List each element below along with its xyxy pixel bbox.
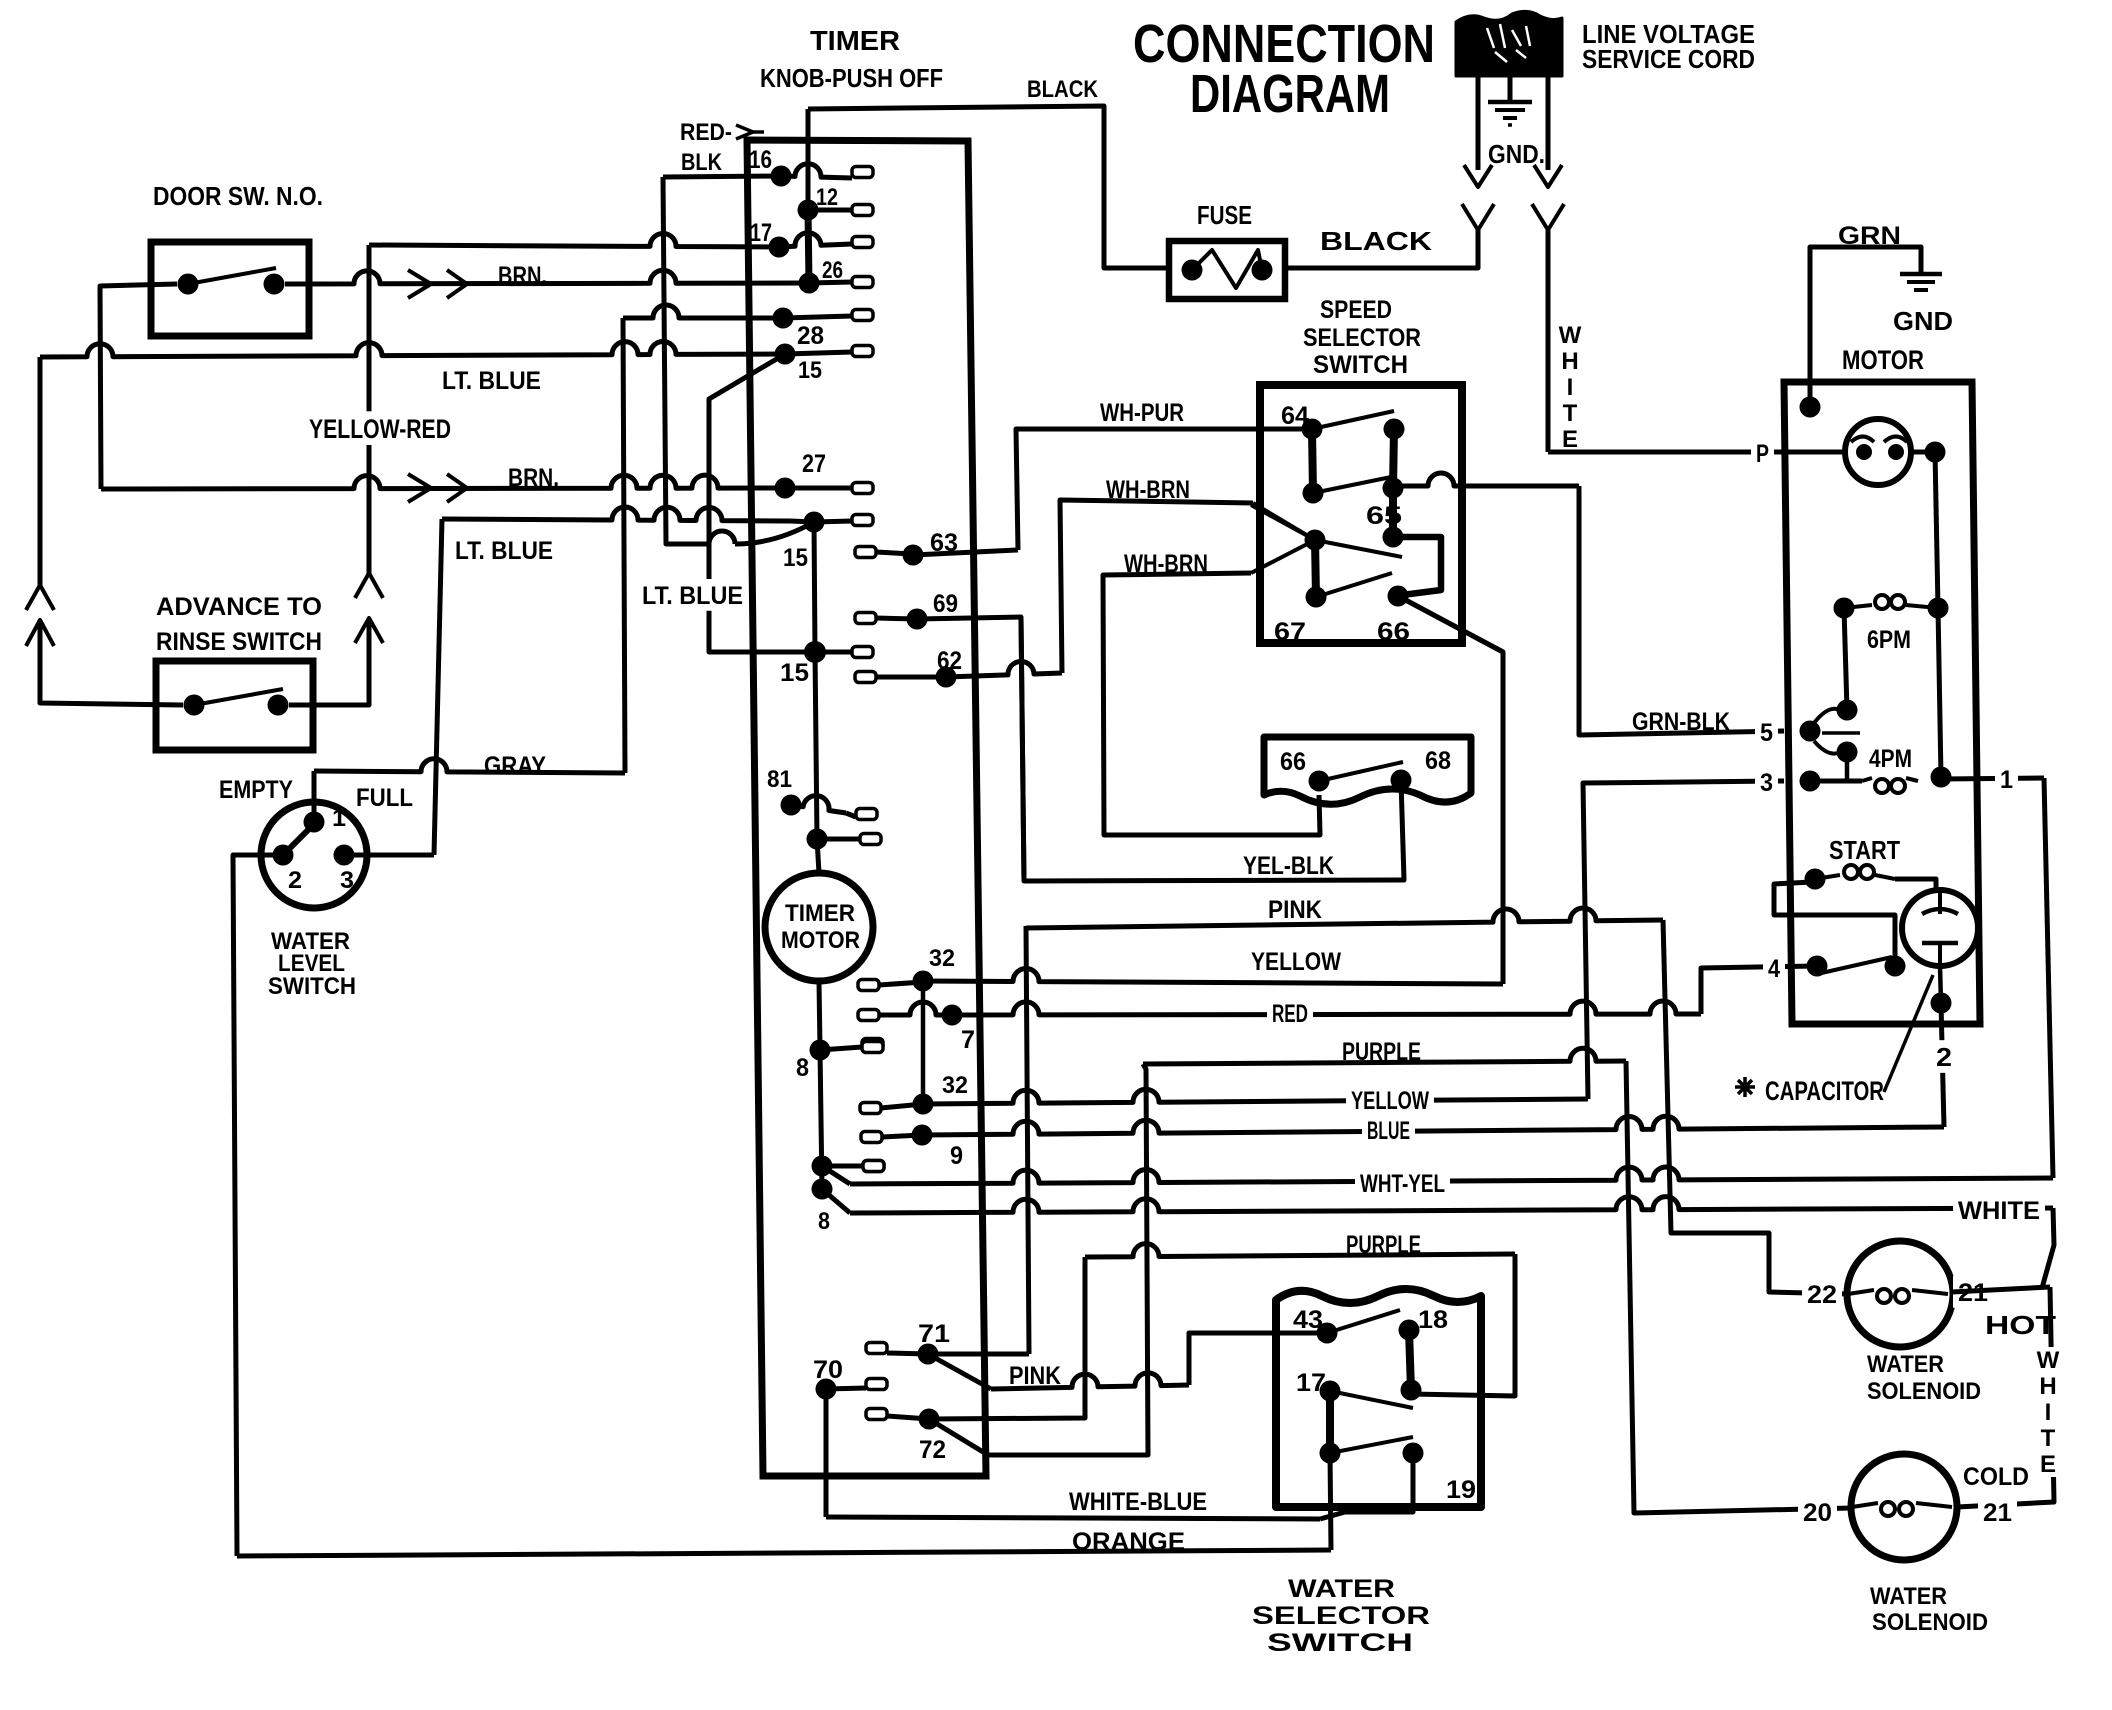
svg-text:32: 32 [929,945,955,972]
water selector switch box wavy top [1276,1289,1481,1507]
svg-text:BLUE: BLUE [1367,1117,1410,1145]
svg-text:BLACK: BLACK [1320,226,1432,256]
wire protector to right dot [1911,450,1935,455]
svg-text:SERVICE CORD: SERVICE CORD [1582,44,1755,74]
svg-text:PURPLE: PURPLE [1342,1038,1421,1066]
svg-text:26: 26 [822,257,843,284]
svg-text:DOOR SW. N.O.: DOOR SW. N.O. [153,181,323,211]
timer bus from BLACK wire down to pin 12 [806,109,811,210]
hot solenoid coil [1848,1290,1874,1294]
svg-text:BLK: BLK [681,149,723,176]
svg-text:SELECTOR: SELECTOR [1252,1602,1430,1630]
yellow2 riser to motor row 3 [1583,781,1784,1099]
wire PINK2 to 43 [991,1373,1189,1389]
svg-text:FUSE: FUSE [1197,200,1252,230]
svg-text:TIMER: TIMER [785,900,855,927]
svg-text:8: 8 [796,1054,809,1082]
svg-text:2: 2 [1936,1042,1952,1072]
bus 32a to 32b [921,981,926,1104]
wire YELLOW row (pin 32a to speed selector 66) [923,969,1503,984]
pin 64 [1302,419,1323,440]
water level pin 1 [304,812,325,833]
start switch notch loop [1774,882,1895,966]
wire WH-PUR (pin 63 riser to pin 64) [1016,429,1312,550]
svg-text:WHITE-BLUE: WHITE-BLUE [1069,1488,1207,1516]
wire YELLOW2 row (pin 32b to motor 3) [923,1089,1588,1104]
wire 4PM to pin 1 and right rail [1941,778,2044,779]
svg-text:LT. BLUE: LT. BLUE [442,367,541,395]
pin 32a row [858,980,879,991]
4PM coil [1810,779,1862,784]
wire door switch left to rail [100,284,177,489]
svg-text:WHT-YEL: WHT-YEL [1360,1170,1445,1198]
pin 70 rail down to white-blue [824,1389,829,1517]
blue riser to capacitor [1941,1003,1944,1127]
svg-text:START: START [1829,835,1900,865]
svg-text:BRN.: BRN. [508,464,559,492]
capacitor circle [1902,890,1978,966]
pin 17 row [769,237,790,258]
junction row below 81 [807,829,828,850]
diagonal 66 to yellow riser [1398,596,1503,652]
svg-text:GND: GND [1893,306,1953,336]
grn dot inside motor [1800,397,1821,418]
svg-text:81: 81 [767,766,792,793]
svg-text:WATER: WATER [1870,1583,1947,1610]
label WHITE vertical right rail [2034,1347,2062,1373]
fuse box [1169,241,1285,299]
wire 21 to right rail junction [1952,1287,2050,1292]
wire plug left leg (black) [1476,76,1481,170]
fuse element [1182,260,1203,281]
line voltage service cord plug [1456,11,1562,76]
svg-text:4PM: 4PM [1869,745,1912,773]
svg-text:YELLOW: YELLOW [1351,1087,1429,1115]
wire WH-BRN 2 (66/68 riser to pivot) [1251,540,1315,573]
label W H I T E vertical [1556,322,1584,348]
svg-text:69: 69 [933,590,958,618]
svg-text:62: 62 [937,647,962,675]
svg-text:EMPTY: EMPTY [219,776,293,804]
svg-text:32: 32 [942,1072,968,1099]
svg-text:2: 2 [288,867,302,894]
bar right top to 65 [1393,429,1394,488]
svg-text:9: 9 [950,1142,963,1170]
wire WH-BRN 1 (pin 62 riser) [1060,500,1253,673]
start winding coil [1805,869,1826,890]
pin 71 diagonal to pink2 [928,1354,991,1389]
svg-text:1: 1 [2000,766,2013,794]
capacitor lead down to 2 [1940,966,1941,1003]
bar 65bottom to 66 [1393,537,1441,595]
svg-text:RINSE SWITCH: RINSE SWITCH [156,628,322,656]
pin 43 [1317,1323,1338,1344]
svg-text:W: W [2037,1347,2060,1374]
pin 15b dot and terminal [804,512,825,533]
pin 63 row [855,547,876,558]
pin 8a terminal stub [862,1042,883,1053]
svg-text:5: 5 [1760,719,1773,747]
pin 9 wht-yel terminal stub [863,1161,884,1172]
blade 17b to 19 [1330,1437,1413,1453]
svg-text:3: 3 [340,867,354,894]
svg-text:WATER: WATER [1288,1575,1395,1603]
pin 16 row [771,166,792,187]
start switch blade [1817,957,1892,974]
right rail up to motor 1 [2044,778,2053,1178]
pin 69 row [855,613,876,624]
bus pin12 to pin26 [808,210,809,283]
red riser to pin 4 [1701,966,1817,1014]
svg-text:6PM: 6PM [1867,626,1911,654]
svg-text:MOTOR: MOTOR [781,927,860,954]
pin 9 row [861,1132,882,1143]
svg-text:66: 66 [1280,748,1306,776]
label YELLOW-RED [304,411,456,445]
svg-text:H: H [1561,348,1578,375]
wire row 5 GRN-BLK into motor [1755,716,1778,748]
svg-text:ORANGE: ORANGE [1072,1528,1185,1556]
svg-text:1: 1 [332,805,346,832]
pin 32b row [860,1103,881,1114]
bus right dot down to 6PM right [1935,452,1938,608]
arrowhead left leg [1464,165,1492,187]
pin 72 row [866,1409,887,1420]
wire ORANGE left rail to 17 [237,1550,1331,1556]
bus into timer motor [817,839,819,873]
blade 67 [1316,573,1392,597]
receptacle Y left [1462,204,1494,230]
svg-text:SELECTOR: SELECTOR [1303,324,1421,352]
svg-text:27: 27 [802,450,826,478]
pin 28 (gray) row [773,308,794,329]
grn-blk riser down to motor 5 [1579,486,1784,735]
pin 72 diagonal down to purple riser [929,1064,1148,1455]
svg-text:LT. BLUE: LT. BLUE [455,537,553,565]
start switch right contact [1885,956,1906,977]
svg-text:67: 67 [1274,618,1306,646]
svg-text:68: 68 [1425,747,1451,775]
svg-text:66: 66 [1377,618,1410,646]
svg-text:64: 64 [1281,402,1309,430]
svg-text:FULL: FULL [356,784,413,812]
svg-text:GRAY: GRAY [484,752,546,780]
wire WHITE row (timer 8 to hot solenoid) [822,1189,850,1213]
svg-text:43: 43 [1293,1306,1323,1334]
svg-text:20: 20 [1803,1499,1832,1527]
svg-text:YELLOW: YELLOW [1251,948,1341,976]
blade 66b-68 [1319,762,1403,781]
svg-text:18: 18 [1418,1306,1448,1334]
pin 7 row [858,1010,879,1021]
bus 6PM right to 4PM right [1938,608,1941,777]
center pivot [1305,530,1326,551]
pin 15c junction row [804,641,826,663]
svg-text:YELLOW-RED: YELLOW-RED [309,414,451,444]
wire pin1 up [312,771,317,822]
svg-text:28: 28 [797,322,824,350]
wire 65 to grn-blk riser [1393,473,1579,486]
blade 43 [1327,1310,1400,1333]
thermal protector circle [1845,419,1911,485]
svg-text:70: 70 [813,1356,843,1384]
arrows BRN wire [408,270,431,298]
wire 19 down to white-blue [1320,1453,1413,1519]
pin 28 dot [775,344,796,365]
svg-text:PINK: PINK [1268,896,1322,924]
label 21 cold [1978,1496,2017,1528]
svg-text:KNOB-PUSH OFF: KNOB-PUSH OFF [760,63,943,93]
svg-text:E: E [2040,1451,2056,1478]
white wire jog down to 21 junction [2042,1208,2054,1288]
start switch pivot 4 [1807,956,1828,977]
bus to double junction [820,1050,822,1189]
wire GRAY water level pin1 to timer row [314,759,625,773]
bar 18 down [1409,1330,1411,1390]
svg-text:8: 8 [818,1208,830,1235]
capacitor plates [1938,892,1942,914]
left rail up to LT.BLUE row [38,357,43,585]
blade 64 [1312,411,1394,429]
svg-text:W: W [1559,322,1582,349]
svg-text:MOTOR: MOTOR [1842,345,1924,375]
wire RED-BLK corner to pin 16 [663,176,781,177]
yellow-red rail up to pin 17 row [367,245,372,573]
svg-text:CAPACITOR: CAPACITOR [1765,1076,1884,1106]
bar pivot to 67 [1315,540,1316,597]
bar 65 bottom [1383,527,1404,548]
pin 65 top [1383,478,1404,499]
svg-text:SOLENOID: SOLENOID [1872,1609,1988,1636]
wire PINK row to hot solenoid riser [1026,908,1663,928]
svg-text:SWITCH: SWITCH [1313,351,1408,379]
pin 70 row [816,1379,837,1400]
blade 17 [1330,1391,1413,1408]
wire white leg down to motor P row [1546,230,1551,452]
svg-text:15: 15 [780,659,809,687]
svg-text:RED-: RED- [680,119,732,146]
double junction dots [812,1156,833,1177]
wire P row [1548,450,1845,455]
bar 17 down [1326,1391,1334,1453]
door switch blade [188,268,276,284]
speed selector box [1260,385,1462,643]
svg-text:GND.: GND. [1488,139,1545,169]
water level pin 3 [334,845,355,866]
svg-text:WATER: WATER [1867,1351,1944,1378]
arrowhead right leg [1534,165,1562,187]
wire LT. BLUE 2 to pin 15 [442,507,790,521]
blade from 64 bar to 65 [1313,476,1396,493]
wire pin2 left to rail [233,855,283,1556]
pin 19 [1403,1443,1424,1464]
pin 12 row [798,200,819,221]
svg-text:SOLENOID: SOLENOID [1867,1378,1981,1405]
motor speed switch pivot 5 [1800,721,1821,742]
wire GRN to ground [1810,247,1921,407]
wire BLACK from timer top to fuse [808,106,1169,268]
svg-text:BLACK: BLACK [1027,76,1099,103]
svg-text:71: 71 [918,1320,950,1348]
svg-text:72: 72 [919,1436,946,1464]
svg-text:12: 12 [816,184,838,211]
svg-text:HOT: HOT [1985,1310,2056,1340]
contact 4PM side [1837,742,1858,763]
rinse switch blade [194,689,283,705]
blade pivot lower [1315,540,1402,557]
svg-text:3: 3 [1760,769,1773,797]
pin 67 [1306,587,1327,608]
pin 66b [1309,771,1330,792]
svg-text:22: 22 [1807,1281,1837,1309]
svg-text:DIAGRAM: DIAGRAM [1190,64,1390,124]
svg-text:ADVANCE TO: ADVANCE TO [156,593,322,621]
RED-BLK rail down [663,177,709,544]
pin 71 row [866,1343,887,1354]
wire BRN door switch to pin 26 [285,270,810,284]
pin 18 [1399,1320,1420,1341]
svg-text:17: 17 [750,219,772,247]
svg-text:SPEED: SPEED [1320,296,1392,324]
receptacle Y right [1532,204,1564,230]
wire PINK from pin 71 riser [1026,926,1029,1354]
wire WHITE-BLUE pin70 to 19 [826,1517,1320,1519]
wire pin3 right [344,853,434,858]
door switch box [151,242,309,336]
door switch contacts [178,274,199,295]
pin 68 [1391,770,1412,791]
disconnect receptacle yellow-red rail [355,573,383,598]
switch blades [1814,709,1846,723]
wire RED-BLK lower to pin 15 dot [709,531,735,544]
pin 8 dot [810,1040,831,1061]
plug texture speckles [1487,24,1530,62]
svg-text:E: E [1562,426,1578,453]
svg-text:I: I [2045,1399,2052,1426]
blade pivot to wh-brn1 [1251,505,1315,540]
advance to rinse switch box [156,661,313,750]
water level switch circle [261,802,367,908]
wire fuse to service cord [1285,232,1478,268]
bar 64 down [1312,429,1313,493]
wire rinse right to yellow-red rail [289,618,369,705]
motor box [1784,382,1980,1024]
svg-text:WH-BRN: WH-BRN [1124,550,1208,578]
wire LT. BLUE rinse to pin 28 [40,341,785,357]
svg-text:21: 21 [1983,1499,2012,1527]
wire BRN lower door rail to pin 27 [101,475,785,489]
svg-text:WH-BRN: WH-BRN [1106,476,1190,504]
wire 6PM left down to switch contact [1844,608,1847,710]
wire PURPLE2 pin72 riser to 18 [1085,1244,1515,1257]
svg-text:16: 16 [749,146,772,174]
svg-text:15: 15 [798,357,822,384]
svg-text:H: H [2039,1373,2056,1400]
svg-text:63: 63 [930,529,958,557]
svg-text:T: T [2041,1425,2056,1452]
rinse switch contacts [184,695,205,716]
svg-text:WHITE: WHITE [1958,1197,2040,1225]
wire row 3 [1800,771,1821,792]
svg-text:19: 19 [1446,1476,1476,1504]
pin 62 row [855,672,876,683]
svg-text:WH-PUR: WH-PUR [1100,399,1184,427]
svg-text:GRN-BLK: GRN-BLK [1632,708,1730,736]
purple riser down to cold solenoid 20 [1626,1061,1852,1513]
svg-text:RED: RED [1272,1000,1308,1028]
bus below timer motor [819,981,820,1050]
svg-text:T: T [1563,400,1578,427]
ground symbol service cord [1488,100,1532,105]
ground symbol motor [1900,272,1942,277]
timer box outline [747,140,986,1476]
water level blade [283,820,318,855]
wire RED row (pin 7 to motor start switch 4) [952,1001,1701,1015]
wire BLUE row (pin 9 to capacitor 2) [922,1116,1944,1135]
pin 66 [1388,586,1409,607]
wire rinse left to rail [40,620,183,705]
svg-text:SWITCH: SWITCH [268,973,356,1000]
pin 17 selector [1320,1381,1341,1402]
svg-text:SWITCH: SWITCH [1267,1629,1413,1657]
disconnect arrow yellow-red rail [355,618,383,643]
label 22 [1802,1278,1842,1310]
svg-text:COLD: COLD [1963,1463,2029,1491]
svg-text:I: I [1567,374,1574,401]
svg-text:TIMER: TIMER [810,25,900,56]
ground stub from plug [1508,76,1513,100]
cold solenoid coil [1852,1503,1878,1507]
svg-text:YEL-BLK: YEL-BLK [1243,852,1334,880]
cold water solenoid circle [1851,1454,1957,1560]
label 21 [1953,1276,1993,1308]
arrows BRN lower wire [408,474,431,502]
66/68 switch box with wavy bottom [1264,737,1471,804]
wire WHT-YEL row (timer 8 to right rail) [822,1166,850,1184]
svg-text:4: 4 [1768,955,1780,983]
wire 68 down to yel-blk row [1021,619,1404,881]
hot water solenoid circle [1847,1241,1953,1347]
pin 26 row [799,273,820,294]
svg-text:P: P [1756,440,1769,468]
wire 17 rail down to orange [1330,1453,1331,1550]
contact right top [1384,419,1405,440]
pin 81 row [781,795,802,816]
disconnect arrow left rail [26,620,54,646]
disconnect receptacle left rail [26,585,54,610]
wire start coil to capacitor top [1895,879,1936,892]
svg-text:7: 7 [961,1026,975,1054]
wire PURPLE row (pin 72 riser to cold solenoid riser) [1143,1048,1626,1064]
timer motor circle [765,873,873,981]
stub junction to terminal [822,1164,863,1169]
wire plug right leg (white) [1546,76,1551,170]
svg-text:15: 15 [783,544,808,572]
pink riser down to solenoid 22 [1663,920,1848,1294]
label 20 [1798,1496,1837,1528]
svg-text:LT. BLUE: LT. BLUE [642,582,743,610]
lt blue 3 rail from pin28 diagonal down to 15 row [709,354,815,652]
pin 27 row [775,478,796,499]
svg-text:17: 17 [1296,1369,1326,1397]
water level pin 2 [273,845,294,866]
svg-text:BRN.: BRN. [498,262,547,290]
timer bus 15 down to timer motor [814,522,817,839]
6PM coil [1834,598,1855,619]
pin 72 wire right to purple2 riser [929,1257,1085,1419]
lt blue rail down to water level pin 3 [434,519,442,855]
